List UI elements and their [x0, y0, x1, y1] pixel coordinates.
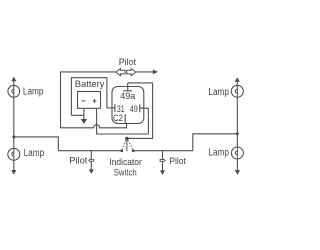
terminal C2: bar [124, 114, 126, 123]
pilot P2 right: stub from bus [162, 151, 164, 158]
arrowhead: dash pilot feed (points right) [153, 70, 158, 75]
ground arrow (chassis, points down) [81, 119, 87, 124]
switch S1: right contact node [132, 149, 135, 152]
svg-text:Lamp: Lamp [23, 87, 44, 98]
wire: bus riser to right lamps (192.8,150.7)-(192.8,133.8)-(237.3,133.8) [193, 134, 238, 151]
terminal 31: bar [114, 104, 116, 112]
svg-text:Pilot: Pilot [119, 57, 137, 67]
wire: positive lead down and to terminal 49 riser [97, 108, 149, 134]
terminal 49a: bar and stem up [123, 83, 132, 91]
battery B1: minus sign [82, 100, 86, 102]
wire: left lamp feeder vertical x=13.8 [13, 97, 15, 148]
battery B1: open-bottom enclosure box [71, 78, 107, 116]
switch S1: dashed throw left [122, 140, 126, 149]
svg-text:49: 49 [130, 104, 138, 115]
relay U1: flasher unit outline [112, 87, 144, 124]
lamp L1 top-left: feed arrow up [11, 77, 16, 86]
pilot P2 right: telltale arrow (points right) [160, 159, 165, 162]
lamp L2 output arrow down [11, 160, 16, 174]
pilot P1 left: stub + arrow down [89, 162, 94, 174]
svg-text:Lamp: Lamp [24, 148, 45, 159]
wire: right lamp feeder vertical x=237.3 [236, 97, 238, 147]
switch S1: dashed throw right [128, 140, 133, 149]
wire: enclosure to relay terminal 31 [107, 107, 115, 109]
wire: top pilot line to arrow [136, 71, 153, 73]
wire: bus left section y=150.7 [58, 150, 122, 152]
node: left branch junction [12, 135, 15, 138]
svg-text:Switch: Switch [114, 168, 137, 179]
svg-text:Battery: Battery [75, 78, 105, 89]
lamp L4 output arrow down [235, 159, 240, 175]
lamp L4 bottom-right: bulb circle with filament [231, 147, 243, 159]
wire: negative lead to ground [71, 108, 84, 119]
lamp L2 bottom-left: bulb circle with filament [8, 148, 20, 160]
svg-text:C2: C2 [113, 113, 123, 124]
lamp L3 top-right: bulb circle with filament [231, 85, 243, 97]
wire: terminal 49a to switch pivot (up over right side) [128, 83, 153, 138]
lamp L1 top-left: bulb circle with filament [8, 85, 20, 97]
pilot telltale arrow right (on top line, points right) [127, 69, 136, 76]
pilot P1 left: stub from bus [90, 151, 92, 158]
wire: branch to bus (13.8,136.9)-(58.3,136.9)-(58.3,150.7) [14, 137, 59, 151]
switch S1: left contact node [121, 149, 124, 152]
svg-text:Lamp: Lamp [208, 147, 229, 158]
pilot P2 right: stub + arrow down [160, 162, 165, 175]
svg-text:Lamp: Lamp [208, 87, 229, 98]
switch S1: pivot node [125, 137, 128, 140]
svg-text:Pilot: Pilot [169, 156, 186, 167]
pilot P1 left: telltale arrow (points left) [89, 159, 94, 162]
svg-text:Indicator: Indicator [109, 157, 141, 168]
switch S1: lever (off position) [126, 139, 128, 152]
node: right lamp junction [236, 132, 239, 135]
battery B1: cell box [78, 92, 101, 109]
svg-text:49a: 49a [120, 91, 135, 101]
lamp L3 top-right: feed arrow up [235, 77, 240, 85]
pilot telltale arrow left (on top line, points left) [116, 69, 125, 76]
wire: C2 to dash pilot loop (stem, bottom, left, top edges) with hop over battery + lead [61, 72, 127, 128]
wire: bus right section y=150.7 [133, 150, 193, 152]
battery B1: plus sign [93, 99, 97, 103]
svg-text:Pilot: Pilot [69, 156, 88, 167]
terminal 49: bar and wire right [140, 104, 149, 112]
